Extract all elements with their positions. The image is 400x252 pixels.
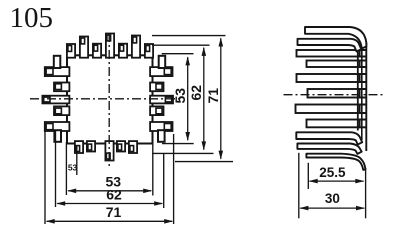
base plate ladder: [358, 43, 367, 152]
corner step top-left: [54, 56, 61, 68]
ext line 71 left: [44, 132, 46, 225]
corner step top-right: [159, 56, 166, 68]
top edge fins: [67, 34, 153, 58]
svg-text:71: 71: [205, 88, 221, 104]
dim line 53 vertical: [187, 57, 189, 140]
bottom edge fins: [75, 141, 137, 160]
side view centerline: [284, 94, 385, 96]
horizontal centerline: [30, 98, 179, 100]
svg-text:71: 71: [106, 204, 122, 220]
corner step bottom-left: [54, 130, 61, 142]
svg-text:62: 62: [188, 85, 204, 101]
dim line 30: [300, 207, 364, 209]
svg-text:3: 3: [73, 163, 78, 173]
ext line tooth edge: [76, 146, 78, 175]
dim line 71 vertical: [220, 38, 222, 159]
dim line 62 vertical: [203, 48, 205, 150]
ext line 25.5 left: [307, 163, 309, 189]
ext line 62 right: [163, 154, 165, 208]
corner step bottom-right: [158, 130, 165, 142]
heatsink profile body square: [67, 55, 153, 143]
dim line 25.5: [310, 180, 364, 182]
ext line 53 top: [162, 53, 194, 55]
svg-text:25.5: 25.5: [319, 165, 346, 180]
side view straight fins: [296, 50, 360, 127]
svg-text:53: 53: [172, 88, 188, 104]
ext line 71 right: [173, 134, 175, 224]
ext line 62 left: [55, 131, 57, 207]
dim line 71 horizontal: [47, 220, 173, 222]
ext line 62 bottom: [152, 152, 213, 154]
left edge fins: [42, 67, 69, 131]
ext line 71 top: [152, 35, 226, 37]
top curved fin: [305, 27, 366, 49]
ext line 53 right: [152, 144, 154, 196]
foot plate lower curved: [306, 154, 365, 170]
ext line right side: [365, 168, 367, 218]
svg-text:30: 30: [325, 191, 340, 206]
ext line 30 left: [298, 153, 300, 219]
second fin with bend: [298, 39, 362, 52]
dim line 62 horizontal: [57, 203, 162, 205]
ext line 62 top: [152, 44, 210, 46]
ext line 53 left: [65, 142, 67, 195]
foot plate upper: [297, 144, 361, 154]
right edge fins: [150, 67, 173, 131]
vertical centerline: [108, 33, 110, 167]
dim line 53 horizontal: [68, 190, 151, 192]
ext line 71 bottom: [175, 161, 233, 163]
svg-text:62: 62: [106, 187, 122, 203]
lower bend fin: [296, 132, 362, 144]
ext line 53 bottom: [162, 143, 194, 145]
svg-text:105: 105: [10, 2, 54, 34]
